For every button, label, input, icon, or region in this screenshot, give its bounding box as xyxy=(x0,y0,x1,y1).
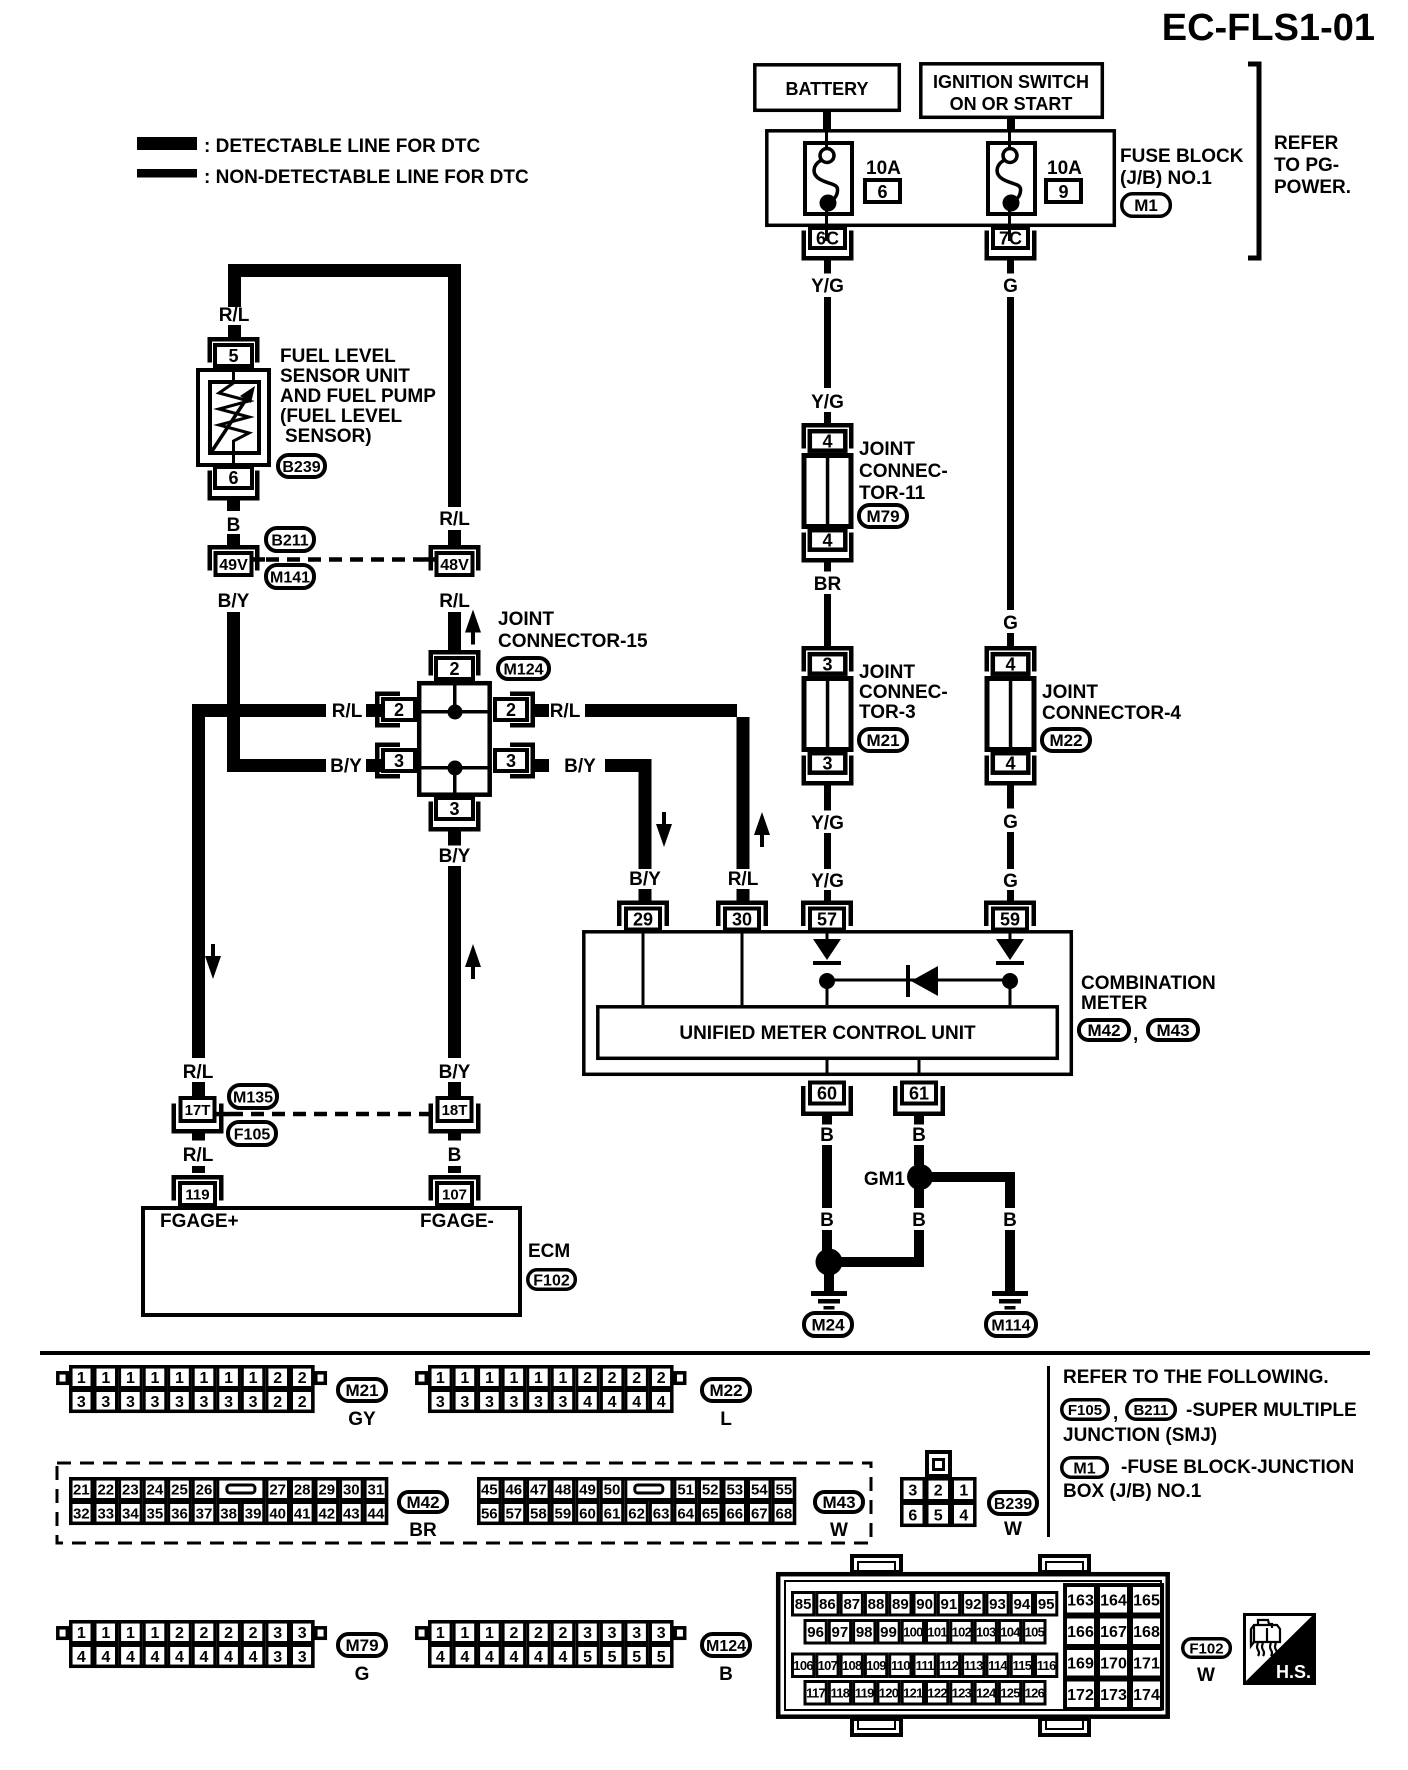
svg-text:107: 107 xyxy=(818,1658,838,1673)
svg-text:-FUSE BLOCK-JUNCTION: -FUSE BLOCK-JUNCTION xyxy=(1121,1457,1354,1478)
svg-text:166: 166 xyxy=(1067,1624,1094,1641)
svg-text:44: 44 xyxy=(368,1505,385,1522)
svg-text:CONNECTOR-4: CONNECTOR-4 xyxy=(1042,703,1181,724)
svg-text:4: 4 xyxy=(559,1649,568,1666)
svg-text:31: 31 xyxy=(368,1481,385,1498)
svg-text:46: 46 xyxy=(505,1481,522,1498)
svg-text:93: 93 xyxy=(989,1596,1006,1613)
svg-text:65: 65 xyxy=(702,1505,719,1522)
svg-text:32: 32 xyxy=(73,1505,90,1522)
svg-text:JOINT: JOINT xyxy=(498,609,554,630)
svg-text:5: 5 xyxy=(657,1649,666,1666)
svg-text:M42: M42 xyxy=(406,1493,439,1512)
svg-text:67: 67 xyxy=(751,1505,768,1522)
svg-text:TO PG-: TO PG- xyxy=(1274,155,1339,176)
svg-text:3: 3 xyxy=(460,1394,469,1411)
svg-text:96: 96 xyxy=(807,1624,824,1641)
svg-text:1: 1 xyxy=(150,1370,159,1387)
svg-text:118: 118 xyxy=(830,1685,849,1700)
svg-text:4: 4 xyxy=(1005,655,1015,675)
svg-text:1: 1 xyxy=(126,1370,135,1387)
svg-text:(J/B) NO.1: (J/B) NO.1 xyxy=(1120,168,1212,189)
svg-text:2: 2 xyxy=(200,1625,209,1642)
svg-text:58: 58 xyxy=(530,1505,547,1522)
svg-text:174: 174 xyxy=(1133,1687,1160,1704)
svg-text:7C: 7C xyxy=(999,229,1022,249)
svg-text:4: 4 xyxy=(583,1394,592,1411)
svg-text:5: 5 xyxy=(583,1649,592,1666)
svg-text:3: 3 xyxy=(175,1394,184,1411)
svg-text:4: 4 xyxy=(632,1394,641,1411)
svg-text:FUSE BLOCK: FUSE BLOCK xyxy=(1120,146,1244,167)
svg-text:3: 3 xyxy=(822,754,832,774)
svg-text:3: 3 xyxy=(632,1625,641,1642)
svg-text:165: 165 xyxy=(1133,1593,1160,1610)
svg-text:GM1: GM1 xyxy=(864,1169,906,1190)
svg-text:R/L: R/L xyxy=(550,701,581,722)
svg-text:119: 119 xyxy=(855,1685,874,1700)
svg-text:3: 3 xyxy=(150,1394,159,1411)
svg-text:4: 4 xyxy=(101,1649,110,1666)
svg-text:3: 3 xyxy=(509,1394,518,1411)
svg-text:61: 61 xyxy=(909,1084,929,1104)
svg-text:2: 2 xyxy=(175,1625,184,1642)
svg-text:JOINT: JOINT xyxy=(1042,682,1098,703)
svg-text:W: W xyxy=(1004,1519,1022,1540)
svg-text:33: 33 xyxy=(97,1505,114,1522)
svg-text:4: 4 xyxy=(608,1394,617,1411)
svg-text:111: 111 xyxy=(916,1658,935,1673)
svg-text:1: 1 xyxy=(150,1625,159,1642)
svg-text:3: 3 xyxy=(534,1394,543,1411)
svg-text:34: 34 xyxy=(122,1505,139,1522)
svg-text:M141: M141 xyxy=(270,569,310,586)
svg-text:35: 35 xyxy=(147,1505,164,1522)
svg-text:GY: GY xyxy=(348,1409,376,1430)
svg-text:2: 2 xyxy=(394,700,404,720)
svg-text:EC-FLS1-01: EC-FLS1-01 xyxy=(1162,7,1375,49)
svg-text:B: B xyxy=(1003,1210,1017,1231)
svg-text:47: 47 xyxy=(530,1481,547,1498)
svg-text:(FUEL LEVEL: (FUEL LEVEL xyxy=(280,406,402,427)
svg-text:26: 26 xyxy=(196,1481,213,1498)
svg-text:6C: 6C xyxy=(816,229,839,249)
svg-text:4: 4 xyxy=(534,1649,543,1666)
svg-text:4: 4 xyxy=(436,1649,445,1666)
svg-text:ECM: ECM xyxy=(528,1241,570,1262)
svg-text:29: 29 xyxy=(633,910,653,930)
svg-text:18T: 18T xyxy=(442,1102,468,1119)
svg-text:3: 3 xyxy=(77,1394,86,1411)
svg-text:113: 113 xyxy=(964,1658,983,1673)
svg-text:6: 6 xyxy=(228,468,238,488)
svg-text:G: G xyxy=(1003,871,1018,892)
svg-text:4: 4 xyxy=(1005,754,1015,774)
svg-text:121: 121 xyxy=(903,1685,923,1700)
svg-text:5: 5 xyxy=(228,346,238,366)
svg-text:120: 120 xyxy=(879,1685,899,1700)
svg-text:H.S.: H.S. xyxy=(1276,1662,1311,1682)
svg-text:53: 53 xyxy=(726,1481,743,1498)
svg-text:1: 1 xyxy=(77,1370,86,1387)
svg-text:4: 4 xyxy=(822,531,832,551)
svg-text:B/Y: B/Y xyxy=(439,1062,471,1083)
svg-text:: NON-DETECTABLE LINE FOR DTC: : NON-DETECTABLE LINE FOR DTC xyxy=(204,167,529,188)
svg-text:107: 107 xyxy=(442,1186,467,1203)
svg-text:168: 168 xyxy=(1133,1624,1160,1641)
svg-text:37: 37 xyxy=(196,1505,213,1522)
svg-text:172: 172 xyxy=(1067,1687,1094,1704)
svg-text:55: 55 xyxy=(776,1481,793,1498)
svg-text:85: 85 xyxy=(795,1596,812,1613)
svg-text:28: 28 xyxy=(294,1481,311,1498)
svg-text:3: 3 xyxy=(822,655,832,675)
svg-text:B239: B239 xyxy=(282,459,320,476)
svg-text:B: B xyxy=(448,1145,462,1166)
svg-text:5: 5 xyxy=(934,1507,943,1524)
svg-text:52: 52 xyxy=(702,1481,719,1498)
svg-text:M43: M43 xyxy=(1156,1021,1189,1040)
svg-text:88: 88 xyxy=(868,1596,885,1613)
svg-text:6: 6 xyxy=(877,182,887,202)
svg-text:3: 3 xyxy=(449,799,459,819)
svg-text:1: 1 xyxy=(77,1625,86,1642)
svg-text:B: B xyxy=(820,1210,834,1231)
svg-text:112: 112 xyxy=(939,1658,958,1673)
svg-text:6: 6 xyxy=(908,1507,917,1524)
svg-text:2: 2 xyxy=(449,659,459,679)
svg-text:94: 94 xyxy=(1014,1596,1031,1613)
svg-text:104: 104 xyxy=(1000,1624,1021,1639)
svg-text:B: B xyxy=(912,1125,926,1146)
svg-text:56: 56 xyxy=(481,1505,498,1522)
svg-text:3: 3 xyxy=(298,1625,307,1642)
svg-text:B/Y: B/Y xyxy=(564,756,596,777)
svg-text:4: 4 xyxy=(657,1394,666,1411)
svg-text:B/Y: B/Y xyxy=(330,756,362,777)
svg-text:36: 36 xyxy=(171,1505,188,1522)
svg-text:M114: M114 xyxy=(991,1317,1030,1334)
svg-text:REFER: REFER xyxy=(1274,133,1339,154)
svg-text:TOR-11: TOR-11 xyxy=(859,483,926,504)
svg-text:B211: B211 xyxy=(271,532,308,549)
svg-text:1: 1 xyxy=(101,1370,110,1387)
svg-text:98: 98 xyxy=(856,1624,873,1641)
svg-text:3: 3 xyxy=(126,1394,135,1411)
svg-text:108: 108 xyxy=(842,1658,862,1673)
svg-text:4: 4 xyxy=(485,1649,494,1666)
svg-text:POWER.: POWER. xyxy=(1274,177,1351,198)
svg-text:10A: 10A xyxy=(866,158,901,179)
svg-text:45: 45 xyxy=(481,1481,498,1498)
svg-text:1: 1 xyxy=(460,1625,469,1642)
svg-text:22: 22 xyxy=(97,1481,114,1498)
svg-text:R/L: R/L xyxy=(439,509,470,530)
svg-text:-SUPER MULTIPLE: -SUPER MULTIPLE xyxy=(1186,1400,1357,1421)
svg-text:4: 4 xyxy=(509,1649,518,1666)
svg-text:F105: F105 xyxy=(234,1126,271,1143)
svg-text:2: 2 xyxy=(298,1394,307,1411)
svg-text:5: 5 xyxy=(632,1649,641,1666)
svg-text:92: 92 xyxy=(965,1596,982,1613)
svg-text:M24: M24 xyxy=(811,1316,845,1335)
svg-text:1: 1 xyxy=(249,1370,258,1387)
svg-text:2: 2 xyxy=(657,1370,666,1387)
svg-text:2: 2 xyxy=(249,1625,258,1642)
svg-text:2: 2 xyxy=(934,1482,943,1499)
svg-text:116: 116 xyxy=(1037,1658,1056,1673)
svg-text:R/L: R/L xyxy=(183,1145,214,1166)
svg-text:40: 40 xyxy=(269,1505,286,1522)
svg-text:JOINT: JOINT xyxy=(859,662,915,683)
svg-text:M79: M79 xyxy=(345,1636,378,1655)
svg-text:1: 1 xyxy=(534,1370,543,1387)
svg-text:4: 4 xyxy=(224,1649,233,1666)
svg-text:UNIFIED METER CONTROL UNIT: UNIFIED METER CONTROL UNIT xyxy=(679,1023,976,1044)
svg-text:54: 54 xyxy=(751,1481,768,1498)
svg-text:68: 68 xyxy=(776,1505,793,1522)
svg-text:62: 62 xyxy=(628,1505,645,1522)
svg-text:30: 30 xyxy=(343,1481,360,1498)
svg-text:2: 2 xyxy=(298,1370,307,1387)
svg-text:Y/G: Y/G xyxy=(811,276,844,297)
svg-text:1: 1 xyxy=(175,1370,184,1387)
svg-text:M21: M21 xyxy=(345,1381,378,1400)
svg-text:2: 2 xyxy=(224,1625,233,1642)
svg-text:103: 103 xyxy=(976,1624,996,1639)
svg-text:171: 171 xyxy=(1133,1656,1160,1673)
svg-text:M21: M21 xyxy=(866,731,899,750)
svg-text:JUNCTION (SMJ): JUNCTION (SMJ) xyxy=(1063,1425,1217,1446)
svg-text:164: 164 xyxy=(1100,1593,1127,1610)
svg-text:COMBINATION: COMBINATION xyxy=(1081,973,1216,994)
svg-text:F102: F102 xyxy=(1189,1640,1223,1657)
svg-text:25: 25 xyxy=(171,1481,188,1498)
svg-text:102: 102 xyxy=(952,1624,972,1639)
svg-text:57: 57 xyxy=(817,910,837,930)
svg-text:Y/G: Y/G xyxy=(811,813,844,834)
svg-text:1: 1 xyxy=(959,1482,968,1499)
svg-text:170: 170 xyxy=(1100,1656,1127,1673)
svg-text:2: 2 xyxy=(273,1394,282,1411)
svg-text:TOR-3: TOR-3 xyxy=(859,702,916,723)
svg-text:27: 27 xyxy=(269,1481,286,1498)
svg-text:2: 2 xyxy=(273,1370,282,1387)
svg-text:50: 50 xyxy=(604,1481,621,1498)
svg-text:29: 29 xyxy=(318,1481,335,1498)
svg-text:125: 125 xyxy=(1000,1685,1020,1700)
svg-text:G: G xyxy=(1003,812,1018,833)
svg-text:90: 90 xyxy=(916,1596,933,1613)
svg-text:2: 2 xyxy=(559,1625,568,1642)
svg-text:M1: M1 xyxy=(1134,196,1158,215)
svg-text:AND FUEL PUMP: AND FUEL PUMP xyxy=(280,386,436,407)
svg-text:W: W xyxy=(1197,1665,1215,1686)
svg-text:10A: 10A xyxy=(1047,158,1082,179)
svg-text:1: 1 xyxy=(200,1370,209,1387)
svg-text:30: 30 xyxy=(732,910,752,930)
svg-text:23: 23 xyxy=(122,1481,139,1498)
svg-text:M124: M124 xyxy=(706,1638,746,1655)
svg-text:F102: F102 xyxy=(533,1272,570,1289)
svg-text:ON OR START: ON OR START xyxy=(950,94,1073,114)
svg-text:G: G xyxy=(1003,613,1018,634)
svg-text:W: W xyxy=(830,1520,848,1541)
svg-text:60: 60 xyxy=(817,1084,837,1104)
svg-text:M22: M22 xyxy=(709,1381,742,1400)
svg-text:49: 49 xyxy=(579,1481,596,1498)
svg-text:3: 3 xyxy=(485,1394,494,1411)
svg-text:3: 3 xyxy=(200,1394,209,1411)
svg-text:,: , xyxy=(1133,1024,1138,1045)
svg-text:60: 60 xyxy=(579,1505,596,1522)
svg-text:CONNEC-: CONNEC- xyxy=(859,682,948,703)
svg-text:B/Y: B/Y xyxy=(439,846,471,867)
svg-text:89: 89 xyxy=(892,1596,909,1613)
svg-text:3: 3 xyxy=(273,1649,282,1666)
svg-text:95: 95 xyxy=(1038,1596,1055,1613)
svg-text:1: 1 xyxy=(436,1625,445,1642)
svg-text:3: 3 xyxy=(273,1625,282,1642)
svg-text:4: 4 xyxy=(460,1649,469,1666)
svg-text:163: 163 xyxy=(1067,1593,1094,1610)
svg-text:FUEL LEVEL: FUEL LEVEL xyxy=(280,346,396,367)
svg-text:3: 3 xyxy=(101,1394,110,1411)
svg-text:126: 126 xyxy=(1025,1685,1045,1700)
svg-text:3: 3 xyxy=(583,1625,592,1642)
svg-text:4: 4 xyxy=(77,1649,86,1666)
svg-text:123: 123 xyxy=(952,1685,972,1700)
svg-text:FGAGE-: FGAGE- xyxy=(420,1211,494,1232)
svg-text:169: 169 xyxy=(1067,1656,1094,1673)
svg-text:BR: BR xyxy=(409,1520,437,1541)
svg-text:M79: M79 xyxy=(866,507,899,526)
svg-text:G: G xyxy=(1003,276,1018,297)
svg-text:SENSOR UNIT: SENSOR UNIT xyxy=(280,366,410,387)
svg-text:M124: M124 xyxy=(503,661,543,678)
svg-text:59: 59 xyxy=(555,1505,572,1522)
svg-text:3: 3 xyxy=(298,1649,307,1666)
svg-text:5: 5 xyxy=(608,1649,617,1666)
svg-text:51: 51 xyxy=(677,1481,694,1498)
svg-text:173: 173 xyxy=(1100,1687,1127,1704)
svg-text:21: 21 xyxy=(73,1481,90,1498)
svg-text:49V: 49V xyxy=(219,557,248,574)
svg-text:99: 99 xyxy=(880,1624,897,1641)
svg-text:1: 1 xyxy=(485,1370,494,1387)
svg-text:B: B xyxy=(719,1664,733,1685)
svg-text:100: 100 xyxy=(903,1624,923,1639)
svg-text:1: 1 xyxy=(559,1370,568,1387)
svg-text:M135: M135 xyxy=(233,1089,273,1106)
svg-text:3: 3 xyxy=(908,1482,917,1499)
svg-text:R/L: R/L xyxy=(439,591,470,612)
svg-text:1: 1 xyxy=(436,1370,445,1387)
svg-text:BOX (J/B) NO.1: BOX (J/B) NO.1 xyxy=(1063,1481,1202,1502)
svg-text:57: 57 xyxy=(505,1505,522,1522)
svg-text:M1: M1 xyxy=(1073,1460,1095,1477)
svg-text:9: 9 xyxy=(1058,182,1068,202)
svg-text:B239: B239 xyxy=(994,1496,1032,1513)
svg-text:SENSOR): SENSOR) xyxy=(285,426,372,447)
svg-text:3: 3 xyxy=(559,1394,568,1411)
svg-text:2: 2 xyxy=(506,700,516,720)
svg-text:105: 105 xyxy=(1025,1624,1045,1639)
svg-text:G: G xyxy=(355,1664,370,1685)
svg-text:106: 106 xyxy=(793,1658,813,1673)
svg-text:39: 39 xyxy=(245,1505,262,1522)
svg-text:BR: BR xyxy=(814,574,842,595)
svg-text:2: 2 xyxy=(608,1370,617,1387)
svg-text:Y/G: Y/G xyxy=(811,392,844,413)
svg-text:91: 91 xyxy=(941,1596,958,1613)
svg-text:2: 2 xyxy=(632,1370,641,1387)
svg-text:B/Y: B/Y xyxy=(218,591,250,612)
svg-text:64: 64 xyxy=(677,1505,694,1522)
svg-text:JOINT: JOINT xyxy=(859,439,915,460)
svg-text:B: B xyxy=(227,515,241,536)
svg-text:M42: M42 xyxy=(1087,1021,1120,1040)
svg-text:M43: M43 xyxy=(822,1493,855,1512)
svg-text:B211: B211 xyxy=(1133,1402,1168,1419)
svg-text:B: B xyxy=(820,1125,834,1146)
svg-text:1: 1 xyxy=(224,1370,233,1387)
svg-text:M22: M22 xyxy=(1049,731,1082,750)
svg-text:CONNEC-: CONNEC- xyxy=(859,461,948,482)
svg-text:3: 3 xyxy=(506,751,516,771)
svg-text:B: B xyxy=(912,1210,926,1231)
svg-text:3: 3 xyxy=(608,1625,617,1642)
svg-text:101: 101 xyxy=(927,1624,947,1639)
svg-text:66: 66 xyxy=(726,1505,743,1522)
svg-text:41: 41 xyxy=(294,1505,311,1522)
svg-text:4: 4 xyxy=(200,1649,209,1666)
svg-text:1: 1 xyxy=(126,1625,135,1642)
svg-text:38: 38 xyxy=(220,1505,237,1522)
svg-text:114: 114 xyxy=(988,1658,1008,1673)
svg-text:119: 119 xyxy=(185,1186,209,1203)
svg-text:R/L: R/L xyxy=(219,305,250,326)
svg-text:CONNECTOR-15: CONNECTOR-15 xyxy=(498,631,648,652)
svg-text:86: 86 xyxy=(819,1596,836,1613)
svg-text:2: 2 xyxy=(583,1370,592,1387)
svg-text:R/L: R/L xyxy=(332,701,363,722)
svg-text:METER: METER xyxy=(1081,993,1148,1014)
svg-text:61: 61 xyxy=(604,1505,621,1522)
svg-text:,: , xyxy=(1113,1403,1118,1424)
svg-text:Y/G: Y/G xyxy=(811,871,844,892)
svg-text:BATTERY: BATTERY xyxy=(786,79,869,99)
svg-text:3: 3 xyxy=(249,1394,258,1411)
svg-text:B/Y: B/Y xyxy=(629,869,661,890)
svg-text:1: 1 xyxy=(460,1370,469,1387)
svg-text:167: 167 xyxy=(1100,1624,1127,1641)
svg-text:24: 24 xyxy=(147,1481,164,1498)
svg-text:3: 3 xyxy=(436,1394,445,1411)
svg-text:4: 4 xyxy=(175,1649,184,1666)
svg-text:43: 43 xyxy=(343,1505,360,1522)
svg-text:F105: F105 xyxy=(1068,1402,1102,1419)
svg-text:115: 115 xyxy=(1012,1658,1031,1673)
svg-text:IGNITION SWITCH: IGNITION SWITCH xyxy=(933,72,1089,92)
svg-text:3: 3 xyxy=(224,1394,233,1411)
svg-text:59: 59 xyxy=(1000,910,1020,930)
svg-text:4: 4 xyxy=(150,1649,159,1666)
svg-text:3: 3 xyxy=(657,1625,666,1642)
svg-text:4: 4 xyxy=(126,1649,135,1666)
svg-text:110: 110 xyxy=(891,1658,910,1673)
svg-text:122: 122 xyxy=(927,1685,947,1700)
